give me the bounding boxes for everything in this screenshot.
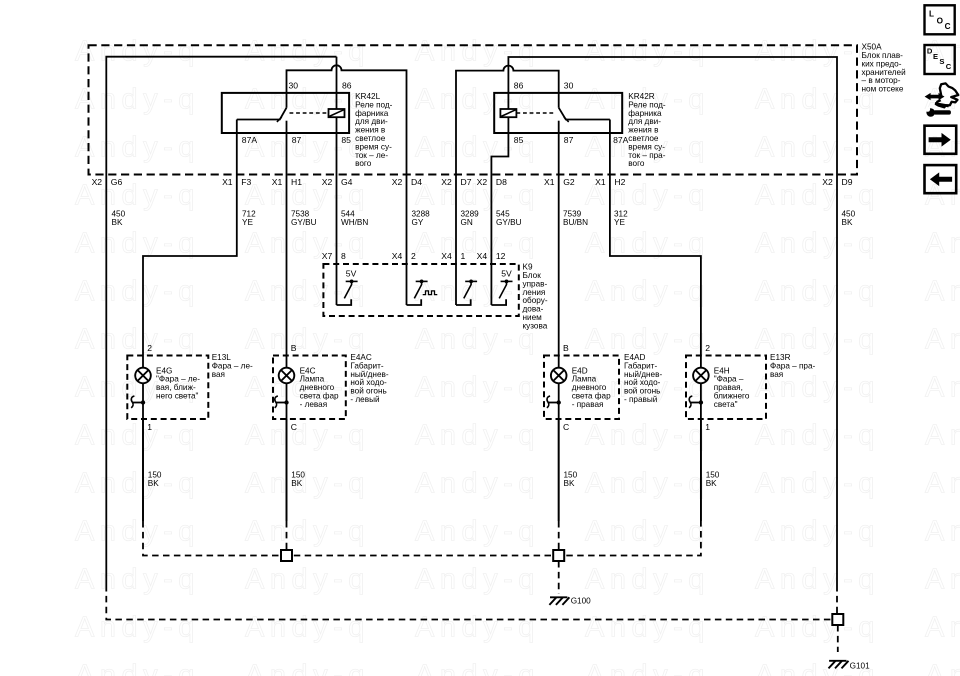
svg-text:вого: вого [628,159,645,168]
svg-text:GY: GY [412,218,424,227]
svg-text:Andy-q: Andy-q [415,515,540,547]
relay KR42L box [222,93,349,133]
svg-text:Andy-q: Andy-q [75,659,200,676]
svg-text:G4: G4 [341,177,353,187]
svg-text:X2: X2 [477,177,488,187]
svg-text:- правый: - правый [624,395,657,404]
svg-text:Andy-q: Andy-q [925,611,960,643]
svg-text:F3: F3 [241,177,251,187]
svg-text:Andy-q: Andy-q [755,611,880,643]
svg-text:Andy-q: Andy-q [585,515,710,547]
lamp E4D dashed box [544,356,619,420]
svg-text:Andy-q: Andy-q [755,227,880,259]
svg-text:Andy-q: Andy-q [755,563,880,595]
splice (to G101) [832,614,843,625]
svg-text:87: 87 [292,135,302,145]
svg-text:X1: X1 [595,177,606,187]
svg-text:86: 86 [514,80,524,90]
wire: E4H ground 150 BK [700,419,702,521]
svg-text:D4: D4 [411,177,422,187]
svg-text:WH/BN: WH/BN [341,218,368,227]
svg-text:85: 85 [341,135,351,145]
svg-text:Andy-q: Andy-q [585,659,710,676]
svg-text:Andy-q: Andy-q [245,227,370,259]
svg-text:30: 30 [289,80,299,90]
svg-text:кузова: кузова [523,321,548,330]
svg-text:Andy-q: Andy-q [585,563,710,595]
svg-text:30: 30 [564,80,574,90]
svg-text:2: 2 [705,343,710,353]
K9 internal switch at pin X4-12 [491,299,506,305]
svg-text:BK: BK [706,479,717,488]
svg-text:D8: D8 [496,177,507,187]
svg-text:Andy-q: Andy-q [585,467,710,499]
svg-text:Andy-q: Andy-q [245,563,370,595]
svg-text:12: 12 [496,251,506,261]
svg-text:X4: X4 [477,251,488,261]
svg-text:D9: D9 [842,177,853,187]
svg-text:H1: H1 [291,177,302,187]
svg-text:Andy-q: Andy-q [925,419,960,451]
svg-text:Andy-q: Andy-q [245,131,370,163]
svg-text:5V: 5V [501,269,512,279]
lamp E4H bulb symbol [693,368,709,384]
svg-text:2: 2 [411,251,416,261]
svg-text:- правая: - правая [572,400,604,409]
svg-text:вого: вого [355,159,372,168]
svg-text:Andy-q: Andy-q [75,563,200,595]
svg-text:Andy-q: Andy-q [925,515,960,547]
svg-text:D: D [927,47,933,56]
lamp E4D bulb symbol [551,368,567,384]
K9 internal switch at pin X7-8 [337,299,352,305]
svg-text:Andy-q: Andy-q [245,35,370,67]
svg-text:Andy-q: Andy-q [245,611,370,643]
wire: left feed rail to KR42L pin 86 [106,57,336,175]
svg-text:Andy-q: Andy-q [415,611,540,643]
svg-text:Andy-q: Andy-q [75,323,200,355]
svg-text:Andy-q: Andy-q [755,275,880,307]
wire: KR42R pin 30 to K9 X4-1 (3289 GN), hump over pin-86 wire [456,66,559,305]
lamp E4G dashed box [127,356,208,420]
svg-text:85: 85 [514,135,524,145]
wire: E4D ground 150 BK [558,419,560,521]
svg-text:Andy-q: Andy-q [925,467,960,499]
wire: dashed lamp ground bus [143,521,701,556]
module K9 dashed box [323,264,518,316]
svg-text:вая: вая [770,370,783,379]
svg-text:X1: X1 [272,177,283,187]
svg-text:GY/BU: GY/BU [496,218,522,227]
relay KR42R coil [516,112,555,114]
wire: KR42R pin 87 via G2, 7539 BU/BN, to lamp E4D [558,133,560,368]
lamp E4C dashed box [273,356,346,420]
wire: right feed rail KR42R pin 86 to D9 [508,57,837,585]
svg-text:8: 8 [341,251,346,261]
svg-text:- левый: - левый [350,395,379,404]
icon back arrow button [925,165,957,193]
svg-text:света": света" [714,400,738,409]
svg-text:Andy-q: Andy-q [925,371,960,403]
svg-text:Andy-q: Andy-q [415,467,540,499]
lamp E4C housing contact hook [276,402,287,404]
svg-text:Andy-q: Andy-q [925,227,960,259]
svg-text:Andy-q: Andy-q [755,419,880,451]
svg-text:C: C [291,422,297,432]
svg-text:BK: BK [112,218,123,227]
svg-text:YE: YE [614,218,625,227]
svg-text:X4: X4 [441,251,452,261]
svg-text:BK: BK [148,479,159,488]
wire: 450 BK left, G6 down to ground line [105,175,107,586]
svg-text:Andy-q: Andy-q [415,659,540,676]
svg-text:X2: X2 [392,177,403,187]
svg-text:87A: 87A [242,135,258,145]
svg-text:BK: BK [564,479,575,488]
svg-text:X7: X7 [322,251,333,261]
K9 internal switch at pin X4-1 [456,299,471,305]
svg-text:C: C [563,422,569,432]
svg-text:Andy-q: Andy-q [925,659,960,676]
icon forward arrow button [925,126,957,154]
svg-text:D7: D7 [461,177,472,187]
relay KR42R box [494,93,622,133]
fuse block X50A dashed outline [89,45,858,174]
relay KR42R switch arm [559,108,610,120]
svg-text:87A: 87A [613,135,629,145]
svg-text:Andy-q: Andy-q [415,35,540,67]
splice (E4C ground) [281,550,292,561]
svg-text:C: C [946,62,952,71]
svg-text:Andy-q: Andy-q [755,467,880,499]
svg-text:Andy-q: Andy-q [415,419,540,451]
svg-text:Andy-q: Andy-q [245,323,370,355]
svg-text:него света": него света" [156,392,199,401]
svg-text:X1: X1 [222,177,233,187]
svg-text:Andy-q: Andy-q [75,131,200,163]
icon LOC button [925,5,955,34]
wire: KR42L pin 86 / pin 85 to K9 X7-8 (544 WH/BN) [336,57,338,109]
relay KR42L pin 87 stub [286,121,288,133]
svg-text:Andy-q: Andy-q [75,227,200,259]
svg-text:Andy-q: Andy-q [585,611,710,643]
svg-text:Andy-q: Andy-q [415,371,540,403]
svg-text:X2: X2 [441,177,452,187]
svg-text:BU/BN: BU/BN [563,218,588,227]
wire: KR42R pin 87A via H2, 312 YE, to lamp E4H [610,120,701,368]
relay KR42L coil [290,112,329,114]
svg-text:Andy-q: Andy-q [585,35,710,67]
wire: KR42L pin 30 to K9 X4-2 (3288 GY), hump over pin-86 wire [287,65,407,305]
svg-text:X4: X4 [392,251,403,261]
svg-text:2: 2 [147,343,152,353]
K9 internal switch at pin X4-2 [407,299,422,305]
wire: dashed drop to G100 [558,561,560,594]
svg-text:Andy-q: Andy-q [75,35,200,67]
svg-text:E: E [933,52,938,61]
svg-text:1: 1 [147,422,152,432]
svg-text:ном отсеке: ном отсеке [862,85,904,94]
svg-text:Andy-q: Andy-q [925,563,960,595]
K9 PWM signal symbol [423,291,438,295]
relay KR42L switch arm [237,108,287,120]
svg-text:Andy-q: Andy-q [925,323,960,355]
ground G101 [829,660,846,662]
ground G100 [550,596,567,598]
svg-text:C: C [945,22,951,31]
icon harness routing (map, arrows, wrench) [925,93,945,100]
svg-text:1: 1 [705,422,710,432]
lamp E4H dashed box [686,356,766,420]
svg-text:Andy-q: Andy-q [755,323,880,355]
svg-text:GN: GN [461,218,473,227]
icon DESC button [925,45,955,74]
svg-text:BK: BK [842,218,853,227]
svg-text:Andy-q: Andy-q [75,419,200,451]
svg-text:O: O [937,16,944,25]
svg-text:S: S [939,57,944,66]
svg-text:Andy-q: Andy-q [585,323,710,355]
svg-text:YE: YE [242,218,253,227]
svg-text:Andy-q: Andy-q [585,227,710,259]
lamp E4G bulb symbol [135,368,151,384]
svg-text:B: B [563,343,569,353]
svg-text:H2: H2 [614,177,625,187]
svg-text:1: 1 [461,251,466,261]
svg-text:Andy-q: Andy-q [755,179,880,211]
wire: E4C ground 150 BK [286,419,288,521]
wire: KR42L pin 87A via F3, 712 YE, to lamp E4G [143,120,237,368]
svg-text:Andy-q: Andy-q [755,515,880,547]
svg-text:Andy-q: Andy-q [75,83,200,115]
svg-text:L: L [929,9,934,18]
svg-text:X2: X2 [92,177,103,187]
svg-text:X2: X2 [322,177,333,187]
svg-text:Andy-q: Andy-q [75,275,200,307]
svg-text:- левая: - левая [300,400,328,409]
svg-text:Andy-q: Andy-q [245,419,370,451]
lamp E4D housing contact hook [548,402,559,404]
svg-text:Andy-q: Andy-q [245,659,370,676]
svg-text:Andy-q: Andy-q [415,563,540,595]
svg-text:87: 87 [564,135,574,145]
lamp E4H housing contact hook [690,402,701,404]
svg-text:Andy-q: Andy-q [75,515,200,547]
lamp E4G housing contact hook [132,402,143,404]
svg-text:5V: 5V [346,269,357,279]
svg-text:Andy-q: Andy-q [925,275,960,307]
svg-text:Andy-q: Andy-q [585,275,710,307]
wire: E4G ground 150 BK [142,419,144,521]
svg-text:86: 86 [342,80,352,90]
svg-text:Andy-q: Andy-q [585,419,710,451]
svg-text:G6: G6 [111,177,123,187]
svg-text:G2: G2 [563,177,575,187]
svg-text:B: B [291,343,297,353]
svg-text:Andy-q: Andy-q [415,323,540,355]
svg-text:Andy-q: Andy-q [755,131,880,163]
svg-text:Andy-q: Andy-q [75,611,200,643]
svg-text:GY/BU: GY/BU [291,218,317,227]
wire: KR42L pin 87 via H1, 7538 GY/BU, to lamp E4C [286,133,288,368]
svg-text:X1: X1 [544,177,555,187]
svg-text:X2: X2 [822,177,833,187]
svg-text:Andy-q: Andy-q [245,515,370,547]
svg-text:Andy-q: Andy-q [245,467,370,499]
relay KR42R pin 87 stub [558,121,560,133]
svg-text:вая: вая [212,370,225,379]
svg-text:G101: G101 [850,661,870,670]
svg-text:Andy-q: Andy-q [75,467,200,499]
wire: KR42R pin 85 via D8, 545 GY/BU, to K9 X4-12 [491,117,508,305]
splice (E4D ground, to G100) [553,550,564,561]
svg-text:Andy-q: Andy-q [925,179,960,211]
svg-text:BK: BK [291,479,302,488]
svg-text:G100: G100 [571,597,591,606]
lamp E4C bulb symbol [279,368,295,384]
wire: dashed main ground bus to G101 [106,585,832,620]
